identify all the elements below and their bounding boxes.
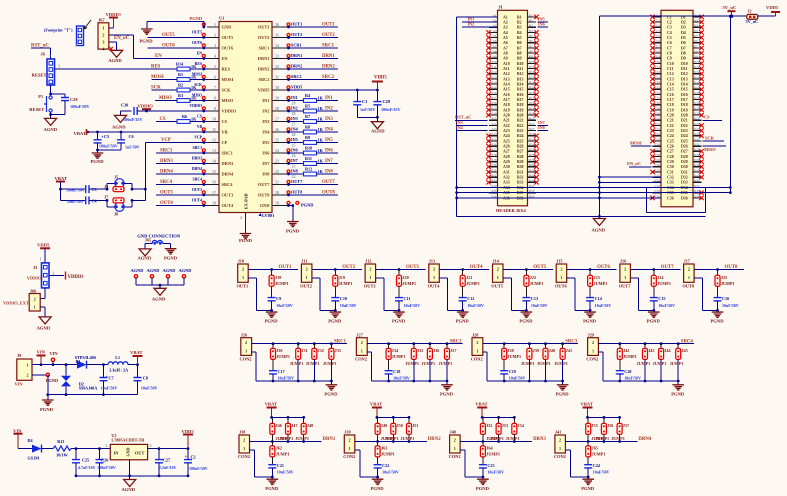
svg-text:OUT3: OUT3: [160, 191, 173, 196]
svg-text:21: 21: [275, 179, 279, 184]
svg-text:D14: D14: [694, 81, 700, 85]
svg-text:A1: A1: [503, 15, 508, 19]
svg-text:C4: C4: [667, 31, 672, 35]
svg-text:C30: C30: [655, 163, 661, 167]
svg-text:J20: J20: [402, 275, 408, 280]
svg-text:A18: A18: [503, 103, 510, 107]
svg-text:D28: D28: [681, 155, 688, 159]
svg-text:JUMP1: JUMP1: [295, 436, 309, 441]
svg-text:B7: B7: [517, 46, 522, 50]
svg-text:B31: B31: [517, 170, 524, 174]
svg-text:J29: J29: [588, 332, 594, 337]
svg-text:JUMP1: JUMP1: [623, 354, 637, 359]
svg-text:PGND: PGND: [328, 319, 342, 324]
svg-text:R11: R11: [305, 156, 312, 161]
svg-text:A3: A3: [503, 26, 508, 30]
svg-text:JUMP1: JUMP1: [611, 436, 625, 441]
svg-text:AGND: AGND: [147, 268, 160, 273]
svg-text:JUMP1: JUMP1: [466, 281, 480, 286]
svg-text:1: 1: [49, 53, 51, 58]
svg-text:C23: C23: [667, 129, 674, 133]
svg-text:J64: J64: [486, 446, 493, 451]
svg-text:OUT4: OUT4: [160, 201, 173, 206]
svg-text:OUT2: OUT2: [342, 265, 355, 270]
svg-text:J33: J33: [335, 348, 341, 353]
svg-text:2: 2: [58, 64, 60, 69]
svg-text:C1: C1: [362, 99, 367, 104]
svg-text:B9: B9: [517, 57, 522, 61]
svg-text:D32: D32: [694, 174, 700, 178]
svg-text:B18: B18: [529, 101, 535, 105]
svg-text:IN7: IN7: [262, 161, 270, 166]
svg-text:C9: C9: [667, 57, 672, 61]
svg-text:AGND: AGND: [131, 268, 144, 273]
svg-text:D5: D5: [681, 36, 686, 40]
svg-text:C23: C23: [487, 463, 494, 468]
svg-text:C10: C10: [667, 62, 674, 66]
svg-text:10uF/50V: 10uF/50V: [404, 303, 421, 308]
svg-text:JUMP1: JUMP1: [290, 361, 304, 366]
svg-text:10: 10: [212, 116, 216, 121]
svg-text:J32: J32: [318, 348, 324, 353]
svg-text:IN6: IN6: [262, 151, 270, 156]
svg-text:PGND: PGND: [556, 392, 570, 397]
svg-text:B30: B30: [517, 165, 524, 169]
svg-text:C26: C26: [101, 458, 108, 463]
svg-text:D10: D10: [681, 62, 688, 66]
svg-text:B6: B6: [517, 41, 522, 45]
svg-text:+: +: [185, 455, 188, 460]
svg-text:J13: J13: [429, 259, 435, 264]
svg-text:J63: J63: [381, 446, 387, 451]
svg-text:B22: B22: [529, 122, 535, 126]
svg-text:C8: C8: [667, 51, 672, 55]
svg-text:VDD5: VDD5: [766, 5, 779, 10]
svg-text:JUMP1: JUMP1: [439, 361, 453, 366]
svg-text:IN8: IN8: [538, 125, 545, 130]
svg-text:IN7: IN7: [291, 158, 298, 163]
svg-text:1: 1: [592, 348, 594, 353]
svg-text:VBAT: VBAT: [581, 401, 593, 406]
svg-text:10uF/50V: 10uF/50V: [593, 470, 610, 475]
svg-text:D8: D8: [681, 51, 686, 55]
svg-text:23: 23: [275, 158, 279, 163]
svg-text:D17: D17: [694, 96, 700, 100]
svg-text:D13: D13: [681, 77, 688, 81]
svg-text:D20: D20: [681, 114, 688, 118]
svg-text:SRC1: SRC1: [334, 339, 347, 344]
svg-text:D4: D4: [681, 31, 686, 35]
svg-text:D31: D31: [681, 170, 688, 174]
svg-text:D14: D14: [681, 83, 688, 87]
svg-text:A7: A7: [503, 46, 508, 50]
svg-text:A32: A32: [491, 174, 497, 178]
svg-text:1: 1: [40, 257, 42, 262]
svg-text:3.3uH / 2A: 3.3uH / 2A: [109, 368, 128, 373]
svg-text:C20: C20: [655, 112, 661, 116]
svg-text:R12: R12: [305, 167, 312, 172]
svg-text:IN2: IN2: [468, 22, 475, 27]
svg-text:D13: D13: [694, 75, 700, 79]
svg-text:B11: B11: [517, 67, 523, 71]
svg-text:VBAT: VBAT: [265, 401, 277, 406]
svg-text:D32: D32: [681, 176, 688, 180]
svg-text:IN3: IN3: [325, 117, 333, 122]
svg-text:B32: B32: [517, 176, 524, 180]
svg-text:C33: C33: [667, 181, 674, 185]
svg-text:PGND: PGND: [286, 229, 300, 234]
svg-text:SRC3: SRC3: [193, 146, 203, 150]
svg-text:IN4: IN4: [291, 127, 299, 132]
svg-text:VDDIO: VDDIO: [106, 12, 122, 17]
svg-text:3: 3: [75, 43, 77, 48]
svg-text:JUMP1: JUMP1: [402, 281, 416, 286]
svg-text:10uF/50V: 10uF/50V: [531, 303, 548, 308]
svg-text:2: 2: [559, 438, 561, 443]
svg-text:B4: B4: [517, 31, 522, 35]
svg-text:10uF/50V: 10uF/50V: [278, 376, 295, 381]
svg-text:J5: J5: [114, 175, 118, 180]
svg-text:AGND: AGND: [179, 268, 192, 273]
svg-text:CS: CS: [197, 114, 202, 118]
svg-text:C22: C22: [382, 463, 389, 468]
svg-text:C29: C29: [655, 158, 661, 162]
svg-text:C4: C4: [92, 199, 98, 204]
svg-text:PGND: PGND: [265, 319, 279, 324]
svg-text:HEADER 36X4: HEADER 36X4: [496, 208, 526, 213]
svg-text:CON2: CON2: [586, 356, 598, 361]
svg-text:VDD5: VDD5: [291, 85, 302, 90]
svg-text:100nF/50V: 100nF/50V: [189, 466, 208, 471]
svg-text:D12: D12: [681, 72, 688, 76]
svg-text:2: 2: [102, 32, 104, 37]
svg-text:D10: D10: [694, 60, 700, 64]
svg-text:JUMP1: JUMP1: [595, 436, 609, 441]
svg-text:OUT2: OUT2: [300, 283, 312, 288]
svg-text:C14: C14: [655, 81, 661, 85]
svg-text:A4: A4: [503, 31, 508, 35]
svg-text:D23: D23: [681, 129, 688, 133]
svg-text:CS: CS: [160, 117, 166, 122]
svg-text:2: 2: [361, 340, 363, 345]
svg-text:17: 17: [212, 190, 216, 195]
svg-text:A20: A20: [503, 114, 510, 118]
svg-text:EX-PAD: EX-PAD: [244, 193, 249, 209]
svg-text:D17: D17: [681, 98, 688, 102]
svg-text:VBAT: VBAT: [475, 401, 487, 406]
svg-text:B8: B8: [517, 51, 522, 55]
svg-text:D8: D8: [694, 49, 698, 53]
svg-text:A22: A22: [491, 122, 497, 126]
svg-text:C31: C31: [655, 168, 661, 172]
svg-text:D6: D6: [681, 41, 686, 45]
svg-text:A29: A29: [491, 158, 497, 162]
svg-text:D29: D29: [694, 158, 700, 162]
svg-text:2: 2: [476, 340, 478, 345]
svg-text:3: 3: [214, 43, 216, 48]
svg-text:OUT1: OUT1: [291, 22, 302, 27]
svg-text:GND: GND: [260, 203, 270, 208]
svg-text:A2: A2: [503, 20, 508, 24]
svg-text:B24: B24: [517, 134, 524, 138]
svg-text:16: 16: [212, 179, 216, 184]
svg-text:D25: D25: [681, 139, 688, 143]
svg-text:J53: J53: [502, 423, 508, 428]
svg-text:J55: J55: [591, 423, 597, 428]
svg-text:J56: J56: [607, 423, 613, 428]
svg-text:D6: D6: [694, 39, 698, 43]
svg-text:SRC1: SRC1: [259, 46, 270, 51]
svg-text:28: 28: [275, 106, 279, 111]
svg-text:J43: J43: [648, 348, 654, 353]
svg-text:JUMP1: JUMP1: [276, 452, 290, 457]
svg-text:SCK: SCK: [222, 88, 232, 93]
svg-text:C36: C36: [667, 196, 674, 200]
svg-text:B33: B33: [529, 179, 535, 183]
svg-text:AGND: AGND: [122, 487, 136, 492]
svg-text:J31: J31: [301, 348, 307, 353]
svg-text:DRN1: DRN1: [323, 437, 336, 442]
svg-text:3: 3: [102, 39, 104, 44]
svg-text:OUT6: OUT6: [192, 41, 202, 45]
svg-text:A27: A27: [503, 150, 510, 154]
svg-text:100uF/35V: 100uF/35V: [381, 107, 401, 112]
svg-text:B20: B20: [529, 112, 535, 116]
svg-text:IN5: IN5: [325, 138, 333, 143]
svg-text:VDDIO: VDDIO: [68, 275, 84, 280]
svg-text:SMAJ40A: SMAJ40A: [79, 386, 98, 391]
svg-text:VBAT: VBAT: [370, 401, 382, 406]
svg-text:A13: A13: [503, 77, 510, 81]
svg-text:C15: C15: [658, 296, 665, 301]
svg-text:8: 8: [214, 95, 216, 100]
svg-text:SRC2: SRC2: [322, 75, 335, 80]
svg-text:PGND: PGND: [40, 407, 54, 412]
svg-text:JUMP1: JUMP1: [486, 452, 500, 457]
svg-text:B31: B31: [529, 168, 535, 172]
svg-text:AGND: AGND: [371, 129, 385, 134]
svg-text:OUT4: OUT4: [192, 198, 202, 202]
svg-text:VIN: VIN: [13, 428, 22, 433]
svg-text:10uF/50V: 10uF/50V: [624, 376, 641, 381]
svg-text:JUMP1: JUMP1: [381, 452, 395, 457]
svg-text:SRC1: SRC1: [322, 44, 335, 49]
svg-text:J38: J38: [507, 348, 513, 353]
svg-text:JUMP1: JUMP1: [721, 281, 735, 286]
svg-text:J54: J54: [518, 423, 525, 428]
svg-text:IN1: IN1: [291, 95, 298, 100]
svg-text:VDDIO: VDDIO: [222, 109, 237, 114]
svg-text:EN: EN: [222, 56, 229, 61]
svg-text:D21: D21: [681, 119, 688, 123]
svg-text:B25: B25: [517, 139, 524, 143]
svg-text:2: 2: [26, 373, 28, 378]
svg-text:J1: J1: [499, 5, 503, 10]
svg-text:A15: A15: [491, 86, 497, 90]
svg-text:C10: C10: [340, 296, 347, 301]
svg-text:A4: A4: [493, 29, 497, 33]
svg-text:IN8: IN8: [291, 169, 298, 174]
svg-text:J36: J36: [433, 348, 439, 353]
svg-text:2: 2: [348, 438, 350, 443]
svg-text:R13: R13: [57, 439, 64, 444]
svg-text:D9: D9: [694, 55, 698, 59]
svg-text:A9: A9: [493, 55, 497, 59]
svg-text:CON2: CON2: [240, 356, 252, 361]
svg-text:1K: 1K: [318, 148, 324, 153]
svg-text:J50: J50: [397, 423, 403, 428]
svg-text:VDD5: VDD5: [374, 76, 387, 81]
svg-text:B30: B30: [529, 163, 535, 167]
svg-text:EN: EN: [155, 54, 162, 59]
svg-text:B29: B29: [529, 158, 535, 162]
svg-text:D5: D5: [694, 34, 698, 38]
svg-text:4: 4: [240, 215, 242, 220]
svg-text:B17: B17: [517, 98, 524, 102]
svg-text:C5: C5: [104, 134, 109, 139]
svg-text:SRC3: SRC3: [160, 149, 173, 154]
svg-text:B9: B9: [529, 55, 533, 59]
svg-text:1: 1: [306, 275, 308, 280]
svg-text:DRN1: DRN1: [322, 54, 335, 59]
svg-text:JUMP1: JUMP1: [506, 436, 520, 441]
svg-text:IN: IN: [114, 451, 120, 456]
svg-text:100nF/50V: 100nF/50V: [99, 144, 118, 149]
svg-text:OUT8: OUT8: [725, 265, 738, 270]
svg-text:2: 2: [454, 438, 456, 443]
svg-text:A16: A16: [503, 93, 510, 97]
svg-text:JUMP1: JUMP1: [507, 354, 521, 359]
svg-text:(Footprint "T"): (Footprint "T"): [44, 28, 73, 33]
svg-text:SRC4: SRC4: [193, 177, 203, 181]
svg-text:AGND: AGND: [152, 297, 166, 302]
svg-text:B10: B10: [517, 62, 524, 66]
svg-text:B20: B20: [517, 114, 524, 118]
svg-text:A27: A27: [491, 148, 497, 152]
svg-text:C16: C16: [655, 91, 661, 95]
svg-text:DRN3: DRN3: [222, 161, 235, 166]
svg-text:SRC4: SRC4: [681, 339, 694, 344]
svg-text:C6: C6: [129, 134, 134, 139]
svg-text:VDDIO: VDDIO: [138, 104, 154, 109]
svg-text:PGND: PGND: [711, 319, 725, 324]
svg-text:R9: R9: [305, 135, 310, 140]
svg-text:11: 11: [212, 127, 216, 132]
svg-text:OUT7: OUT7: [661, 265, 674, 270]
svg-text:A6: A6: [503, 41, 508, 45]
svg-text:JUMP1: JUMP1: [385, 436, 399, 441]
svg-text:JUMP1: JUMP1: [653, 361, 667, 366]
svg-text:GND: GND: [126, 447, 131, 456]
svg-text:J34: J34: [392, 348, 399, 353]
svg-text:18: 18: [212, 200, 216, 205]
svg-text:2: 2: [369, 266, 371, 271]
svg-text:34: 34: [275, 43, 279, 48]
svg-text:J49: J49: [381, 423, 387, 428]
svg-text:J25: J25: [721, 275, 727, 280]
svg-text:PGND: PGND: [647, 319, 661, 324]
svg-text:D1: D1: [76, 359, 81, 364]
svg-text:OUT3: OUT3: [192, 188, 202, 192]
svg-text:J66: J66: [30, 289, 36, 294]
svg-text:J65: J65: [592, 446, 598, 451]
svg-text:B23: B23: [529, 127, 535, 131]
svg-text:1: 1: [105, 443, 107, 448]
svg-text:1: 1: [454, 446, 456, 451]
svg-text:JUMP1: JUMP1: [537, 361, 551, 366]
svg-text:AGND: AGND: [108, 58, 122, 63]
svg-text:C18: C18: [667, 103, 674, 107]
svg-text:AGND: AGND: [592, 228, 606, 233]
svg-text:10uF/50V: 10uF/50V: [276, 303, 293, 308]
svg-text:B25: B25: [529, 137, 535, 141]
svg-text:A25: A25: [491, 137, 497, 141]
svg-text:MOSI: MOSI: [192, 72, 203, 76]
svg-text:C21: C21: [655, 117, 661, 121]
svg-text:C13: C13: [655, 75, 661, 79]
svg-text:R5: R5: [305, 104, 310, 109]
svg-text:2: 2: [306, 266, 308, 271]
svg-text:B3: B3: [529, 24, 533, 28]
svg-text:A10: A10: [503, 62, 510, 66]
svg-text:CS: CS: [704, 115, 710, 120]
svg-text:A12: A12: [503, 72, 510, 76]
svg-text:D27: D27: [681, 150, 688, 154]
svg-text:OUT5: OUT5: [491, 283, 504, 288]
svg-text:VDDIO: VDDIO: [27, 276, 42, 281]
svg-text:A30: A30: [491, 163, 497, 167]
svg-text:R14: R14: [176, 61, 184, 66]
svg-text:CS: CS: [222, 119, 228, 124]
svg-text:MISO: MISO: [222, 98, 234, 103]
svg-text:B18: B18: [517, 103, 524, 107]
svg-text:C6: C6: [656, 39, 660, 43]
svg-text:10uF/50V: 10uF/50V: [340, 303, 357, 308]
svg-text:10nF/50V: 10nF/50V: [67, 199, 84, 204]
svg-text:D22: D22: [694, 122, 700, 126]
svg-text:1: 1: [34, 305, 36, 310]
svg-text:C6: C6: [667, 41, 672, 45]
svg-text:J42: J42: [623, 348, 629, 353]
svg-text:J27: J27: [356, 332, 362, 337]
svg-text:C8: C8: [143, 376, 148, 381]
svg-text:B13: B13: [517, 77, 524, 81]
svg-text:OUT1: OUT1: [237, 283, 249, 288]
svg-text:J44: J44: [664, 348, 671, 353]
svg-text:EN_uC: EN_uC: [114, 36, 130, 41]
svg-text:C16: C16: [722, 296, 729, 301]
svg-text:1K: 1K: [318, 158, 324, 163]
svg-text:J57: J57: [623, 423, 629, 428]
svg-text:1: 1: [624, 275, 626, 280]
svg-text:C29: C29: [383, 99, 391, 104]
svg-text:A18: A18: [491, 101, 497, 105]
svg-text:10/1W: 10/1W: [56, 453, 68, 458]
svg-text:A15: A15: [503, 88, 510, 92]
svg-text:C13: C13: [667, 77, 674, 81]
svg-text:1K: 1K: [318, 137, 324, 142]
svg-text:B11: B11: [529, 65, 535, 69]
svg-text:C30: C30: [121, 103, 128, 108]
svg-text:OUT6: OUT6: [162, 44, 175, 49]
svg-text:B14: B14: [517, 83, 524, 87]
svg-text:10uF/50V: 10uF/50V: [467, 303, 484, 308]
svg-text:OUT1: OUT1: [322, 23, 335, 28]
svg-text:C21: C21: [667, 119, 674, 123]
svg-text:1K: 1K: [318, 95, 324, 100]
svg-text:C12: C12: [667, 72, 674, 76]
svg-text:D19: D19: [694, 106, 700, 110]
